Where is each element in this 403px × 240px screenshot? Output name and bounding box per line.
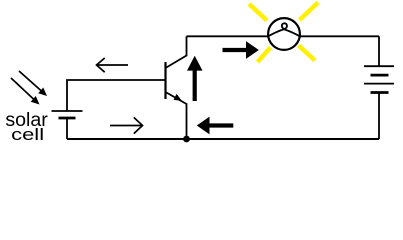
transistor Q1 collector (166, 36, 187, 68)
bold arrow left (bottom return current) (197, 117, 234, 135)
lamp ray lower-right (299, 46, 316, 61)
lamp body (268, 18, 300, 50)
bold arrow up (collector current) (187, 56, 203, 101)
transistor Q1 base bar (164, 62, 166, 99)
wire bottom rail (67, 138, 379, 140)
svg-text:cell: cell (11, 126, 44, 144)
solar cell plate long (52, 110, 83, 112)
thin arrow right (bottom, electron flow) (110, 117, 143, 133)
transistor Q1 emitter with arrow (166, 92, 187, 139)
battery B1 plate 2 short (371, 74, 389, 77)
wire solar cell top to base (67, 80, 165, 111)
solar light arrow 1 (19, 71, 47, 96)
lamp ray upper-left (249, 4, 267, 21)
wire solar cell bottom (66, 118, 68, 139)
lamp ray upper-right (300, 3, 319, 21)
bold arrow right (to lamp) (223, 41, 259, 59)
wire right side down to battery (378, 36, 380, 66)
thin arrow left (top, electron flow) (97, 58, 129, 72)
battery B1 plate 3 long (364, 83, 394, 85)
solar light arrow 2 (11, 78, 40, 105)
battery B1 plate 1 long (364, 65, 394, 67)
lamp ray lower-left (258, 48, 271, 63)
solar cell plate short (59, 117, 76, 120)
wire battery bottom to bottom rail (378, 93, 380, 140)
battery B1 plate 4 short (371, 91, 389, 94)
label "solar cell" (5, 110, 48, 144)
junction dot (183, 136, 190, 143)
lamp filament (268, 23, 300, 36)
wire top (collector to lamp to battery) (187, 35, 380, 37)
